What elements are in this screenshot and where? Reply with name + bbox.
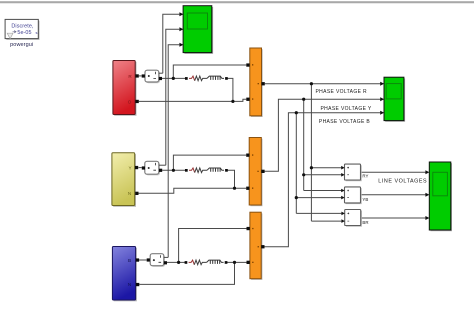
source B port N xyxy=(136,283,139,286)
source B port B xyxy=(136,258,139,261)
wire node Y to U_Y in+ xyxy=(173,155,246,170)
top window edge line xyxy=(0,1,474,3)
scope U_SC3 (line voltages) xyxy=(429,162,452,231)
scope1 input arrow 1 xyxy=(179,12,183,16)
wire SUM_RY out to scope3 in1 xyxy=(361,171,426,173)
svg-text:N: N xyxy=(128,282,131,287)
source block R (phase R) xyxy=(113,61,137,116)
voltage measurement U_R (orange) xyxy=(250,48,263,117)
scope3 input arrow 3 xyxy=(425,216,429,220)
current measurement CM_Y xyxy=(145,161,160,175)
scope3 input arrow 1 xyxy=(425,170,429,174)
svg-text:Y: Y xyxy=(128,165,131,170)
wire riser phase R current to scope1 in1 xyxy=(163,14,180,73)
SUM_BR input arrow + xyxy=(341,212,345,216)
CM_Y left port xyxy=(142,166,145,169)
svg-text:5e-05: 5e-05 xyxy=(17,30,31,36)
U_Y in- port xyxy=(246,187,249,190)
resistor R-phase xyxy=(189,76,207,81)
wire source R to CM_R xyxy=(139,75,142,77)
scope U_SC2 (phase voltages) xyxy=(384,77,405,122)
current measurement CM_R xyxy=(145,70,160,83)
node R branch right xyxy=(225,77,228,80)
U_R in+ port xyxy=(246,63,249,66)
node R branch left xyxy=(185,77,188,80)
svg-text:PHASE VOLTAGE B: PHASE VOLTAGE B xyxy=(319,119,371,125)
inductor B-phase xyxy=(207,260,224,264)
CM_Y out port xyxy=(159,169,162,172)
CM_B left port xyxy=(147,258,150,261)
junction CM_B out / U_B riser xyxy=(177,261,180,264)
SUM_YB input arrow - xyxy=(341,196,345,200)
sum block SUM_BR xyxy=(345,210,362,227)
wire RL branch B to U_B in- xyxy=(226,261,247,263)
node Y branch left xyxy=(185,169,188,172)
U_B in- port xyxy=(247,261,250,264)
node Y branch right xyxy=(225,169,228,172)
wire CM_Y hook to scope riser xyxy=(159,164,166,166)
junction phase Y signal tap xyxy=(302,98,305,101)
source R port O xyxy=(136,100,139,103)
junction CM_R out / U_R riser xyxy=(172,77,175,80)
sum block SUM_YB xyxy=(345,187,362,204)
svg-text:LINE VOLTAGES: LINE VOLTAGES xyxy=(378,178,427,184)
wire drop Y signal to RY- and YB+ xyxy=(303,99,305,190)
SUM_RY input arrow + xyxy=(341,166,345,170)
wire RL branch Y return down xyxy=(226,170,234,188)
svg-text:Discrete,: Discrete, xyxy=(11,23,34,29)
wire node R to U_R in+ xyxy=(173,65,246,78)
svg-text:PHASE VOLTAGE R: PHASE VOLTAGE R xyxy=(316,89,368,95)
junction neutral Y / RL return xyxy=(233,187,236,190)
wire neutral B xyxy=(139,262,234,284)
source Y port Y xyxy=(135,166,138,169)
wire drop B signal to YB- and BR+ xyxy=(295,113,297,214)
inductor Y-phase xyxy=(207,168,224,172)
wire U_R out to scope2 in1 (phase voltage R) xyxy=(265,83,381,85)
wire neutral R xyxy=(139,99,247,101)
U_R out port xyxy=(262,82,265,85)
scope U_SC1 (currents scope, top) xyxy=(183,6,213,54)
svg-text:PHASE VOLTAGE Y: PHASE VOLTAGE Y xyxy=(321,106,372,112)
junction phase B signal tap xyxy=(295,111,298,114)
node B branch left xyxy=(185,261,188,264)
CM_B out port xyxy=(164,261,167,264)
scope2 input arrow 3 xyxy=(380,111,384,115)
U_B in+ port xyxy=(247,227,250,230)
scope2 input arrow 1 xyxy=(380,82,384,86)
svg-text:RY: RY xyxy=(362,174,368,179)
current measurement CM_B xyxy=(150,254,165,267)
U_Y out port xyxy=(261,170,264,173)
resistor B-phase xyxy=(189,260,207,265)
svg-text:B: B xyxy=(128,258,131,263)
wire SUM_BR out to scope3 in3 xyxy=(361,217,426,219)
scope1 input arrow 3 xyxy=(179,43,183,47)
wire RL branch R return down xyxy=(226,78,233,101)
junction neutral R / RL return xyxy=(231,100,234,103)
wire drop R signal to RY+ and BR- xyxy=(310,84,312,221)
SUM_RY input arrow - xyxy=(341,173,345,177)
wire U_Y out to scope2 in2 (phase voltage Y) xyxy=(265,99,381,171)
wire source Y to CM_Y xyxy=(138,167,142,169)
junction neutral B / branch B xyxy=(233,261,236,264)
wire CM_R out to RL branch R xyxy=(162,77,186,79)
junction CM_Y out / U_Y riser xyxy=(172,169,175,172)
svg-text:s: s xyxy=(36,30,38,35)
junction phase R signal tap xyxy=(310,82,313,85)
junction B drop at YB- xyxy=(295,196,298,199)
junction Y drop at RY- xyxy=(302,173,305,176)
U_R in- port xyxy=(246,98,249,101)
wire CM_B hook to scope riser xyxy=(164,256,168,258)
SUM_BR input arrow - xyxy=(341,219,345,223)
wire CM_R hook to scope riser xyxy=(159,72,163,74)
powergui block xyxy=(5,19,39,40)
wire node B to U_B in+ xyxy=(179,229,247,263)
SUM_YB input arrow + xyxy=(341,189,345,193)
svg-text:BR: BR xyxy=(362,220,368,225)
scope3 input arrow 2 xyxy=(425,193,429,197)
source Y port N xyxy=(135,192,138,195)
wire riser phase Y current to scope1 in2 xyxy=(166,29,180,165)
svg-text:YB: YB xyxy=(362,197,368,202)
scope2 input arrow 2 xyxy=(380,97,384,101)
svg-text:powergui: powergui xyxy=(10,42,33,48)
wire U_B out to scope2 in3 (phase voltage B) xyxy=(264,113,380,247)
wire neutral Y xyxy=(138,188,246,193)
node B branch right xyxy=(225,261,228,264)
source R port R xyxy=(136,74,139,77)
wire source B to CM_B xyxy=(139,259,147,261)
wire CM_B out to RL branch B xyxy=(167,261,186,263)
source block Y (phase Y) xyxy=(112,153,136,207)
resistor Y-phase xyxy=(189,168,207,173)
wire CM_Y out to RL branch Y xyxy=(162,169,186,171)
svg-text:O: O xyxy=(128,99,132,104)
CM_R out port xyxy=(159,77,162,80)
voltage measurement U_B (orange) xyxy=(250,212,263,280)
svg-text:N: N xyxy=(128,191,131,196)
scope1 input arrow 2 xyxy=(179,27,183,31)
junction R drop at RY+ xyxy=(310,166,313,169)
source block B (phase B) xyxy=(112,247,136,302)
wire SUM_YB out to scope3 in2 xyxy=(361,194,426,196)
CM_R left port xyxy=(142,74,145,77)
wire riser phase B current to scope1 in3 xyxy=(168,45,180,258)
U_Y in+ port xyxy=(246,154,249,157)
U_B out port xyxy=(261,245,264,248)
inductor R-phase xyxy=(207,76,224,80)
voltage measurement U_Y (orange) xyxy=(249,138,262,207)
sum block SUM_RY xyxy=(345,164,362,181)
